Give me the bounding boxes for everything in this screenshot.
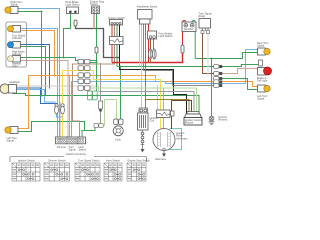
svg-text:Ignition Switch: Ignition Switch [18,159,35,163]
svg-text:Light Switch: Light Switch [159,34,174,38]
svg-text:Engine Stop Switch: Engine Stop Switch [128,159,151,163]
svg-text:Relay: Relay [199,14,206,18]
svg-text:Light Switch: Light Switch [66,3,81,7]
svg-text:Rectifier: Rectifier [184,27,194,31]
svg-text:Alternator: Alternator [155,157,166,161]
svg-text:Switch Continuity: Switch Continuity [66,152,87,156]
svg-text:Handlebar Switch: Handlebar Switch [137,5,158,9]
svg-text:Dimmer: Dimmer [57,145,66,149]
svg-text:Signal: Signal [257,97,265,101]
svg-text:Signal: Signal [69,148,77,152]
svg-text:Module: Module [185,120,194,124]
svg-text:Tail Light: Tail Light [257,79,268,83]
svg-text:Turn Signal Switch: Turn Signal Switch [78,159,100,163]
svg-text:Horn: Horn [116,138,122,142]
svg-text:Signal: Signal [257,44,265,48]
svg-text:Signal: Signal [11,3,19,7]
svg-text:Dimmer Switch: Dimmer Switch [48,159,66,163]
svg-text:Horn Switch: Horn Switch [106,159,121,163]
svg-text:Light: Light [12,64,18,68]
svg-text:Coil: Coil [150,119,155,123]
svg-text:Generator: Generator [176,136,188,140]
svg-text:Switch: Switch [79,148,87,152]
svg-text:Switch: Switch [90,2,98,6]
svg-text:(Frame): (Frame) [218,118,227,122]
svg-text:Indicator: Indicator [12,36,22,40]
svg-text:Headlight: Headlight [9,80,20,84]
svg-text:Signal: Signal [7,139,15,143]
